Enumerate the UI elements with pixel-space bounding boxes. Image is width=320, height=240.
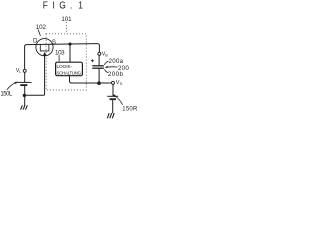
svg-text:200b: 200b: [108, 71, 124, 78]
svg-text:SCHALTUNG: SCHALTUNG: [57, 70, 82, 75]
svg-text:L: L: [19, 70, 21, 74]
svg-text:LOGIK-: LOGIK-: [57, 64, 73, 70]
svg-text:S: S: [120, 81, 123, 86]
svg-text:150L: 150L: [0, 92, 13, 98]
svg-text:102: 102: [36, 24, 47, 31]
svg-text:150R: 150R: [122, 107, 138, 113]
svg-text:D: D: [33, 38, 38, 45]
svg-text:101: 101: [61, 16, 72, 23]
svg-text:103: 103: [55, 49, 65, 56]
